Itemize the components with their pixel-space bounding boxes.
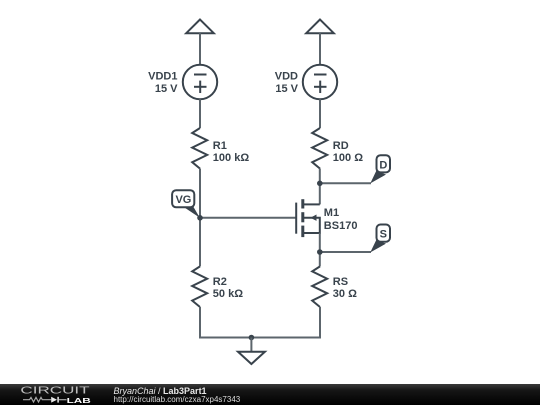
svg-text:RS: RS — [333, 276, 348, 288]
wire to node S — [320, 251, 371, 253]
wire — [199, 99, 201, 128]
wire — [319, 307, 321, 338]
svg-text:50 kΩ: 50 kΩ — [213, 288, 243, 300]
svg-text:LAB: LAB — [67, 396, 92, 405]
svg-text:BS170: BS170 — [324, 220, 358, 232]
wire — [319, 99, 321, 128]
resistor R1 — [192, 128, 207, 169]
footer bar — [0, 384, 540, 405]
power flag VDD — [306, 20, 334, 34]
voltage source VDD — [303, 65, 337, 99]
wire — [199, 169, 201, 267]
node D — [317, 155, 390, 186]
svg-text:VG: VG — [175, 194, 191, 206]
svg-text:D: D — [379, 160, 387, 172]
svg-text:R2: R2 — [213, 276, 227, 288]
svg-text:15 V: 15 V — [275, 83, 298, 95]
resistor RD — [312, 128, 327, 169]
svg-text:VDD: VDD — [275, 71, 298, 83]
resistor R2 — [192, 266, 207, 307]
voltage source VDD1 — [183, 65, 217, 99]
resistor RS — [312, 266, 327, 307]
transistor M1 (NMOS BS170) — [296, 199, 320, 237]
power flag VDD1 — [186, 20, 214, 34]
svg-text:15 V: 15 V — [155, 83, 178, 95]
node S — [317, 225, 390, 255]
footer credit text — [114, 386, 207, 396]
svg-text:R1: R1 — [213, 140, 227, 152]
svg-text:100 Ω: 100 Ω — [333, 152, 363, 164]
node VG — [172, 190, 203, 220]
svg-text:S: S — [380, 229, 387, 241]
wire — [319, 169, 321, 205]
wire — [199, 33, 201, 65]
svg-text:100 kΩ: 100 kΩ — [213, 152, 250, 164]
ground — [238, 335, 265, 364]
wire — [199, 307, 201, 338]
svg-text:VDD1: VDD1 — [148, 71, 177, 83]
wire — [200, 217, 296, 219]
CircuitLab logo — [0, 384, 110, 405]
wire to node D — [320, 182, 371, 184]
wire — [319, 233, 321, 266]
svg-text:30 Ω: 30 Ω — [333, 288, 357, 300]
footer url text — [114, 395, 241, 404]
svg-text:RD: RD — [333, 140, 349, 152]
wire — [319, 33, 321, 65]
svg-text:M1: M1 — [324, 207, 339, 219]
wire bottom rail — [199, 337, 321, 339]
